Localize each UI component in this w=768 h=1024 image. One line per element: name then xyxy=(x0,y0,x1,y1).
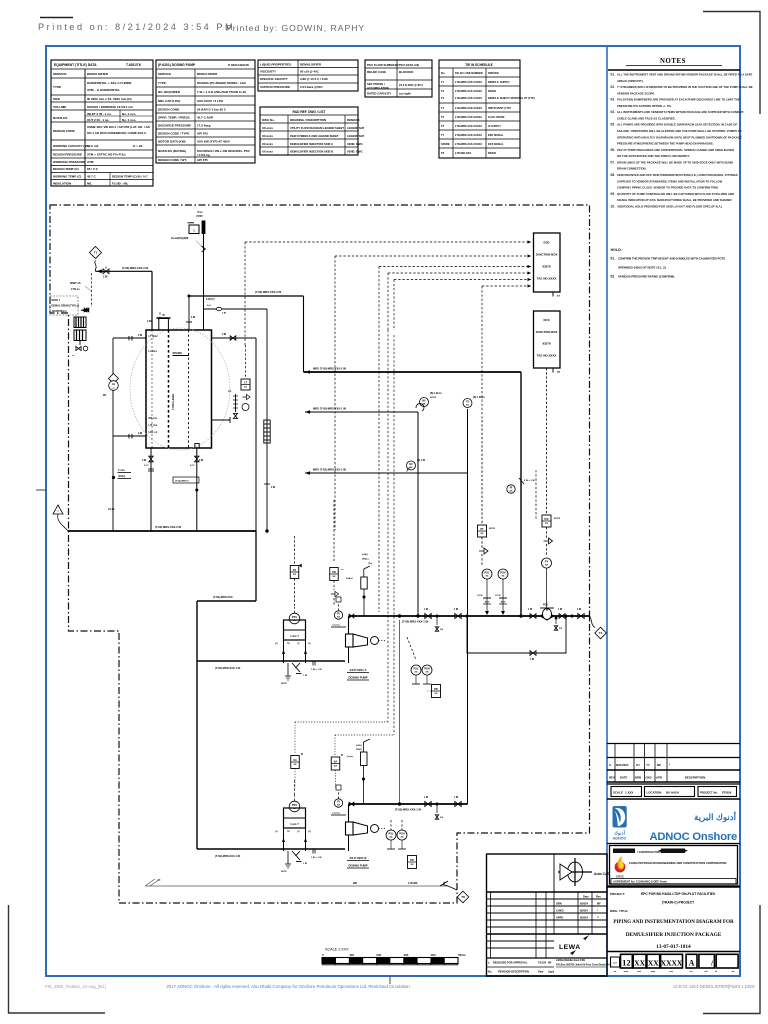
svg-text:(T-62)-MRS-XXX-1 IN: (T-62)-MRS-XXX-1 IN xyxy=(402,620,428,624)
svg-text:T8: T8 xyxy=(461,895,465,899)
svg-text:AREAS (OPEN PIT).: AREAS (OPEN PIT). xyxy=(617,79,644,83)
svg-text:DEMULSIFIER INJECTION SKID B: DEMULSIFIER INJECTION SKID B xyxy=(290,150,333,154)
svg-text:P-6201A/B/C/D: P-6201A/B/C/D xyxy=(228,63,250,67)
pump A PSV xyxy=(289,613,300,624)
svg-text:VEND. DWG: VEND. DWG xyxy=(347,142,363,146)
svg-text:2 IN: 2 IN xyxy=(103,276,108,279)
XA square 2 xyxy=(331,757,340,770)
filter on standpipe xyxy=(266,309,268,531)
svg-text:8/2024: 8/2024 xyxy=(580,916,588,920)
svg-text:No. 2 nos.: No. 2 nos. xyxy=(122,112,137,116)
arrow fitting A xyxy=(479,548,488,554)
svg-text:ATM + STATIC HD FV+FULL: ATM + STATIC HD FV+FULL xyxy=(87,153,126,157)
svg-text:WORKING PRESSURE: WORKING PRESSURE xyxy=(53,160,85,164)
svg-text:8/2024: 8/2024 xyxy=(580,902,588,906)
svg-text:M: M xyxy=(301,754,303,756)
svg-text:1 IN: 1 IN xyxy=(530,659,535,661)
svg-text:13-07-017-1814: 13-07-017-1814 xyxy=(656,944,691,950)
svg-text:VOLUME: VOLUME xyxy=(53,105,66,109)
control valve PCV xyxy=(540,612,554,620)
svg-text:2 IN-MRS-XXX-XXXXX: 2 IN-MRS-XXX-XXXXX xyxy=(455,133,482,137)
svg-text:LEWA: LEWA xyxy=(559,944,581,951)
svg-text:93278: 93278 xyxy=(542,342,550,346)
PCV actuator xyxy=(540,607,554,609)
svg-text:(1): (1) xyxy=(297,831,300,833)
svg-text:24.0 B ARG @ 85 C: 24.0 B ARG @ 85 C xyxy=(399,83,423,87)
svg-text:ALL INSTRUMENTS AND VENDOR'S I: ALL INSTRUMENTS AND VENDOR'S ITEMS WITHI… xyxy=(617,110,744,114)
svg-text:MOTOR DATA (KW): MOTOR DATA (KW) xyxy=(158,140,186,144)
svg-text:DESIGN CODE: DESIGN CODE xyxy=(53,129,75,133)
svg-text:type: type xyxy=(651,970,656,973)
svg-text:MF: MF xyxy=(597,902,601,906)
svg-text:1 am ?: 1 am ? xyxy=(290,634,299,638)
junction box ESD xyxy=(534,233,561,292)
svg-text:(T-62)-MRS-XXX-2 IN: (T-62)-MRS-XXX-2 IN xyxy=(122,266,148,270)
svg-text:02.: 02. xyxy=(611,85,616,89)
svg-text:NOTE: NOTE xyxy=(554,518,561,520)
svg-text:M xx: M xx xyxy=(198,212,204,214)
svg-text:XXX KW (TYP) AT 400V: XXX KW (TYP) AT 400V xyxy=(197,140,230,144)
svg-text:xxxx: xxxx xyxy=(613,963,618,965)
svg-text:(T-62)-MRS-XXX-2 IN: (T-62)-MRS-XXX-2 IN xyxy=(155,525,181,529)
svg-text:VISCOSITY: VISCOSITY xyxy=(260,70,276,74)
svg-text:TYPE: TYPE xyxy=(158,81,166,85)
svg-text:2 IN: 2 IN xyxy=(147,320,152,323)
pump B relief loop xyxy=(284,808,306,828)
svg-text:PA: PA xyxy=(293,568,297,572)
svg-text:أدنوك البرية: أدنوك البرية xyxy=(694,810,736,823)
svg-text:DWG No.: DWG No. xyxy=(262,118,275,122)
tank left nozzle LG lower xyxy=(113,435,146,437)
svg-text:TIE-IN / LINE NUMBER: TIE-IN / LINE NUMBER xyxy=(455,71,483,75)
CPECC logo xyxy=(615,862,626,873)
svg-text:CONFIRM THE PROVEN TRIP HEIGHT: CONFIRM THE PROVEN TRIP HEIGHT AND HANDL… xyxy=(618,257,725,261)
svg-text:ASME SEC VIII DIV.1 / API 650: ASME SEC VIII DIV.1 / API 650 (LAT. ED. … xyxy=(87,125,151,129)
svg-text:Date: Date xyxy=(583,895,589,899)
crop mark bottom-right xyxy=(703,905,760,1014)
svg-text:xx: xx xyxy=(72,355,75,357)
svg-text:PULSATION DAMPENERS ARE PROVID: PULSATION DAMPENERS ARE PROVIDED AT EACH… xyxy=(617,98,740,102)
svg-text:0: 0 xyxy=(322,953,324,957)
level gauge standpipe xyxy=(112,338,114,531)
flow glass tap xyxy=(112,476,115,479)
svg-text:HOLD:: HOLD: xyxy=(611,248,622,252)
svg-text:TAG NO:XXXX: TAG NO:XXXX xyxy=(537,353,557,357)
LT flag A xyxy=(361,577,367,589)
svg-text:2 IN xx: 2 IN xx xyxy=(71,287,80,291)
svg-text:1: 1 xyxy=(193,229,195,233)
svg-text:xx: xx xyxy=(390,836,393,839)
svg-text:JUNCTION BOX: JUNCTION BOX xyxy=(536,330,558,334)
svg-text:MRS (T-62)-MRS-XXX-2 IN: MRS (T-62)-MRS-XXX-2 IN xyxy=(313,367,346,371)
suction header B xyxy=(197,848,345,850)
notes panel border xyxy=(606,46,608,976)
tank T-6201 shell xyxy=(146,330,212,448)
svg-text:XXXX: XXXX xyxy=(661,959,683,968)
svg-text:xx: xx xyxy=(294,763,297,766)
svg-text:ALL THE INSTRUMENT VENT AND DR: ALL THE INSTRUMENT VENT AND DRAINS WITHI… xyxy=(617,73,753,77)
svg-text:CHKD: CHKD xyxy=(556,909,564,913)
svg-text:2 IN WD: 2 IN WD xyxy=(408,882,418,885)
crop mark top-left xyxy=(40,17,73,19)
svg-text:ATM. - E HORIZONTAL: ATM. - E HORIZONTAL xyxy=(87,88,120,92)
svg-text:(T-62)-MRS-XXX: (T-62)-MRS-XXX xyxy=(213,595,233,599)
svg-text:Y' STRAINERS WITH 40 MICRONS T: Y' STRAINERS WITH 40 MICRONS TO BE PROVI… xyxy=(617,85,753,89)
svg-text:1 IN: 1 IN xyxy=(424,797,429,799)
ESD signal lines xyxy=(245,241,531,243)
svg-text:1/2 IN: 1/2 IN xyxy=(477,595,483,597)
svg-text:2 IN: 2 IN xyxy=(191,317,196,319)
svg-text:xx: xx xyxy=(411,863,414,866)
svg-text:SxBxC: SxBxC xyxy=(346,578,353,580)
svg-text:(B) 1 IN xx: (B) 1 IN xx xyxy=(473,396,485,399)
svg-text:2 IN: 2 IN xyxy=(271,487,276,489)
svg-text:45.7 C: 45.7 C xyxy=(87,175,97,179)
pump B suction spec break xyxy=(312,849,314,854)
level gauge column xyxy=(235,394,237,412)
svg-text:xx: xx xyxy=(466,404,469,407)
svg-text:H = HL: H = HL xyxy=(133,144,143,148)
vendor rev table xyxy=(487,891,608,893)
svg-text:Zone2(S)x(3)M: Zone2(S)x(3)M xyxy=(171,237,188,240)
svg-text:WBT IA: WBT IA xyxy=(70,281,81,285)
check on riser xyxy=(519,478,524,484)
svg-text:SIZE: SIZE xyxy=(53,97,60,101)
svg-text:of: of xyxy=(715,971,717,973)
svg-text:14.0 m3: 14.0 m3 xyxy=(87,144,99,148)
svg-text:500m: 500m xyxy=(458,953,466,957)
svg-text:WORKING TEMP. (C): WORKING TEMP. (C) xyxy=(53,175,81,179)
svg-text:DEMULS. SUPPLY: DEMULS. SUPPLY xyxy=(488,81,510,84)
future line 2 xyxy=(305,410,310,414)
svg-text:xx: xx xyxy=(502,575,505,578)
svg-text:XX-xxxx: XX-xxxx xyxy=(262,126,273,130)
svg-text:DCS: DCS xyxy=(543,318,549,322)
pump A leak detect signals xyxy=(387,330,389,722)
svg-text:xxx/mg: xxx/mg xyxy=(332,813,340,815)
svg-text:No. 1 nos.: No. 1 nos. xyxy=(122,118,137,122)
svg-text:1:XXX: 1:XXX xyxy=(625,791,633,795)
svg-text:M: M xyxy=(162,314,164,317)
svg-text:OPENINGS (HOLD AT NOTE 10.1, 2: OPENINGS (HOLD AT NOTE 10.1, 2). xyxy=(618,266,667,270)
svg-text:NOTE: NOTE xyxy=(430,397,437,399)
pump A suction spec break xyxy=(312,661,314,666)
svg-text:PSV-XXXX A/B: PSV-XXXX A/B xyxy=(399,63,419,67)
LT signal from tank xyxy=(159,312,161,319)
svg-text:MIN. CAP (LPH): MIN. CAP (LPH) xyxy=(158,99,180,103)
svg-text:01.: 01. xyxy=(611,73,616,77)
svg-text:DESIGN COND.: DESIGN COND. xyxy=(158,108,180,112)
svg-text:Auto CAD: Auto CAD xyxy=(594,872,611,876)
svg-text:JUNCTION BOX: JUNCTION BOX xyxy=(536,253,558,257)
svg-text:(T-62)-MRS-X: (T-62)-MRS-X xyxy=(175,481,189,483)
svg-text:1 IN: 1 IN xyxy=(303,675,307,677)
PI on riser xyxy=(463,399,472,408)
svg-text:xx: xx xyxy=(341,569,344,571)
pump B PSL pair xyxy=(386,830,396,840)
svg-text:TAG NO:XXXX: TAG NO:XXXX xyxy=(537,277,557,281)
svg-text:2 IN-WD-XXX: 2 IN-WD-XXX xyxy=(455,151,471,155)
svg-text:Printed on: 8/21/2024 3:54 PM: Printed on: 8/21/2024 3:54 PM xyxy=(38,22,235,32)
svg-text:NO. REQUIRED: NO. REQUIRED xyxy=(158,90,181,94)
svg-text:VARIOUS PRESSURE RATING (CONFI: VARIOUS PRESSURE RATING (CONFIRM). xyxy=(618,275,675,279)
svg-text:xx: xx xyxy=(545,564,548,567)
svg-text:07.: 07. xyxy=(611,160,616,164)
svg-text:FAILURE, OPERATORS WILL BE ALE: FAILURE, OPERATORS WILL BE ALERTED AND T… xyxy=(617,129,742,133)
psv B signal xyxy=(294,780,296,795)
svg-text:DEMULSIFIER: DEMULSIFIER xyxy=(197,72,218,76)
svg-text:(xx)xx: (xx)xx xyxy=(347,756,354,758)
svg-text:MT xxx: MT xxx xyxy=(149,417,158,420)
drain collection line xyxy=(145,885,448,887)
svg-text:INSTR./VENT (TYP): INSTR./VENT (TYP) xyxy=(488,107,511,110)
table equipment data T-6201 xyxy=(51,60,153,186)
header A outlet valve xyxy=(578,613,584,618)
svg-text:PIC: PIC xyxy=(544,517,548,521)
svg-text:(TRAIN-C) PROJECT: (TRAIN-C) PROJECT xyxy=(662,901,694,905)
pressure bubbles A xyxy=(482,569,492,579)
svg-text:RATED CAPACITY: RATED CAPACITY xyxy=(367,92,391,96)
svg-text:2 IN: 2 IN xyxy=(199,460,204,462)
svg-text:FLUID : NIL: FLUID : NIL xyxy=(112,182,128,186)
svg-text:PROJECT:: PROJECT: xyxy=(610,892,625,896)
svg-text:LG: LG xyxy=(112,383,115,386)
svg-text:2 IN: 2 IN xyxy=(138,335,143,337)
pipe inlet from T1 xyxy=(90,247,102,259)
svg-text:(1): (1) xyxy=(275,831,278,833)
svg-text:DRAIN: DRAIN xyxy=(488,152,496,155)
svg-text:SERVICE: SERVICE xyxy=(53,72,67,76)
svg-text:CKD: CKD xyxy=(646,776,652,780)
svg-text:XA: XA xyxy=(293,758,297,762)
svg-text:T3: T3 xyxy=(441,96,445,100)
svg-text:LILL xx: LILL xx xyxy=(149,431,158,434)
svg-text:T8: T8 xyxy=(557,371,560,374)
svg-text:24 BAR G 3 bar 85 C: 24 BAR G 3 bar 85 C xyxy=(197,108,227,112)
fold mark bottom xyxy=(389,976,391,984)
svg-text:GY: GY xyxy=(636,763,640,767)
svg-text:DWG. TITLE:: DWG. TITLE: xyxy=(610,909,628,913)
svg-text:PID_4900_TextBox_43-Aug_[9/1]: PID_4900_TextBox_43-Aug_[9/1] xyxy=(45,984,106,989)
svg-text:HORIZONTAL + SKL CYLINDR.: HORIZONTAL + SKL CYLINDR. xyxy=(87,81,132,85)
svg-text:DRAIN LINES OF THE PACKAGE WIL: DRAIN LINES OF THE PACKAGE WILL BE MADE … xyxy=(617,160,733,164)
svg-text:xxx/mg: xxx/mg xyxy=(332,625,340,627)
drain connector T8 xyxy=(457,891,469,903)
svg-text:8/21/2024: 8/21/2024 xyxy=(616,763,629,767)
table tie-in schedule xyxy=(439,60,520,158)
svg-text:SERVICE: SERVICE xyxy=(158,72,171,76)
svg-text:area: area xyxy=(624,971,629,973)
pump A relief loop xyxy=(284,620,306,640)
svg-text:co: co xyxy=(614,971,617,973)
svg-text:1 IN: 1 IN xyxy=(424,609,429,611)
svg-text:API 675: API 675 xyxy=(197,158,208,162)
svg-text:01.: 01. xyxy=(611,257,616,261)
svg-text:INLET 2 IN - 1 no.: INLET 2 IN - 1 no. xyxy=(87,112,112,116)
tank outlet right xyxy=(196,448,198,531)
svg-text:OPER. TEMP. / PRESS.: OPER. TEMP. / PRESS. xyxy=(158,116,191,120)
svg-text:MF: MF xyxy=(548,962,552,965)
pipe riser to header B xyxy=(399,620,401,804)
tank left nozzle LG upper xyxy=(113,337,146,339)
svg-text:DRN: DRN xyxy=(635,776,641,780)
svg-text:2 IN-MRS-XXX-XXXXX: 2 IN-MRS-XXX-XXXXX xyxy=(455,80,482,84)
pump B discharge riser xyxy=(348,804,350,822)
IA dashed drop xyxy=(91,273,93,307)
svg-text:SIGNAL INDICATION AT DCS. MANU: SIGNAL INDICATION AT DCS. MANUFACTURING … xyxy=(617,198,732,202)
table dosing pump data xyxy=(156,60,255,163)
svg-text:100: 100 xyxy=(349,953,354,957)
drawing number boxes xyxy=(607,951,740,953)
svg-text:**: ** xyxy=(597,916,599,920)
svg-text:2 IN x 1 IN: 2 IN x 1 IN xyxy=(524,480,535,482)
svg-text:(LSH): (LSH) xyxy=(362,554,368,556)
svg-text:BU HASA: BU HASA xyxy=(666,791,680,795)
svg-text:S.I.T: S.I.T xyxy=(190,465,195,467)
svg-text:12: 12 xyxy=(622,958,631,968)
pump A discharge riser xyxy=(348,616,350,634)
svg-text:300: 300 xyxy=(404,953,409,957)
ADNOC logo xyxy=(613,806,627,828)
svg-text:DRAIN CONNECTION.: DRAIN CONNECTION. xyxy=(617,167,647,171)
svg-text:T5: T5 xyxy=(441,115,445,119)
tank internals xyxy=(151,330,153,448)
svg-text:NOTES: NOTES xyxy=(660,58,686,65)
svg-text:XX-xxxx: XX-xxxx xyxy=(262,134,273,138)
drain B xyxy=(436,804,438,813)
svg-text:AGREEMENT No. 12345/ABC-S-DEF: AGREEMENT No. 12345/ABC-S-DEF-Onsh xyxy=(613,880,667,884)
svg-text:API 675: API 675 xyxy=(197,132,208,136)
solenoid flag xyxy=(361,752,368,766)
svg-text:2 IN-MRS-XXX-XXXXX: 2 IN-MRS-XXX-XXXXX xyxy=(455,89,482,93)
svg-text:XX-P-6201 A: XX-P-6201 A xyxy=(350,668,368,672)
svg-text:xxx kg/hr: xxx kg/hr xyxy=(399,92,412,96)
svg-text:IA SUPPLY: IA SUPPLY xyxy=(488,125,501,128)
svg-text:PD: PD xyxy=(434,687,438,691)
svg-text:(T-62)-MRS-XXX-1 IN: (T-62)-MRS-XXX-1 IN xyxy=(215,666,240,670)
svg-text:T-6201 LEVEL: T-6201 LEVEL xyxy=(172,393,175,410)
svg-text:ADNOC: ADNOC xyxy=(613,837,627,841)
vendor title block xyxy=(487,854,608,976)
svg-text:LIQUID PROPERTIES: LIQUID PROPERTIES xyxy=(260,63,291,67)
svg-text:Date: Date xyxy=(538,971,544,974)
svg-text:CHINA PETROLEUM ENGINEERING AN: CHINA PETROLEUM ENGINEERING AND CONSTRUC… xyxy=(629,861,726,865)
svg-text:T6: T6 xyxy=(441,124,445,128)
svg-text:xx: xx xyxy=(334,765,337,768)
svg-text:2 IN: 2 IN xyxy=(222,334,227,336)
svg-text:3/4: 3/4 xyxy=(440,628,444,631)
pump B motor xyxy=(371,825,379,833)
svg-text:xx: xx xyxy=(244,386,247,389)
svg-text:DCS SIGNAL: DCS SIGNAL xyxy=(488,143,504,146)
svg-text:1 IN: 1 IN xyxy=(577,609,582,611)
discharge header B xyxy=(349,803,468,805)
svg-text:PRESSURE ATMOSPHERIC BETWEEN T: PRESSURE ATMOSPHERIC BETWEEN THE PUMP HE… xyxy=(617,142,714,146)
svg-text:3/4: 3/4 xyxy=(559,627,563,630)
bypass loop xyxy=(467,616,566,653)
svg-text:Rev: Rev xyxy=(596,895,601,899)
svg-text:A: A xyxy=(689,959,695,968)
svg-text:1 IN x 1 IN: 1 IN x 1 IN xyxy=(311,669,322,671)
svg-text:SPARE: SPARE xyxy=(441,142,450,146)
svg-text:ALL PUMPS ARE PROVIDED WITH DO: ALL PUMPS ARE PROVIDED WITH DOUBLE DIAPH… xyxy=(617,123,737,127)
svg-text:MF: MF xyxy=(657,763,661,767)
svg-text:NOTE 1: NOTE 1 xyxy=(52,299,61,302)
svg-text:DRAIN: DRAIN xyxy=(488,90,496,93)
svg-text:WORKING CAPACITY (M3): WORKING CAPACITY (M3) xyxy=(53,144,89,148)
svg-text:XX: XX xyxy=(634,959,645,968)
svg-text:tot: tot xyxy=(732,970,735,973)
svg-text:3/4: 3/4 xyxy=(440,816,444,819)
svg-text:TR: TR xyxy=(287,643,290,645)
svg-text:HC: HC xyxy=(157,879,161,882)
svg-text:WD(L): WD(L) xyxy=(356,749,362,751)
table liquid properties xyxy=(258,60,358,91)
unloading valve xyxy=(79,341,81,346)
svg-text:1 IN x 1 IN: 1 IN x 1 IN xyxy=(311,857,322,859)
svg-text:DOSING PUMP: DOSING PUMP xyxy=(348,864,367,868)
pump A PI gauge xyxy=(334,611,342,619)
svg-text:APD: APD xyxy=(656,776,662,780)
tank recycle header xyxy=(189,295,304,297)
svg-text:BLOCKED: BLOCKED xyxy=(399,70,413,74)
svg-text:(B) 1 IN xx: (B) 1 IN xx xyxy=(430,392,442,395)
svg-text:DATE: DATE xyxy=(620,776,628,780)
svg-text:NOTE: NOTE xyxy=(489,528,496,530)
svg-text:PIPING AND INSTRUMENTATION DIA: PIPING AND INSTRUMENTATION DIAGRAM FOR xyxy=(613,919,734,925)
svg-text:PRESSURE PULSATIONS WITHIN +/-: PRESSURE PULSATIONS WITHIN +/- 5%. xyxy=(617,104,672,108)
svg-text:SPARE: SPARE xyxy=(173,351,183,355)
svg-text:6 IN (T): 6 IN (T) xyxy=(206,298,215,301)
svg-text:(P-6201) DOSING PUMP: (P-6201) DOSING PUMP xyxy=(158,63,196,67)
svg-text:2017 ADNOC Onshore - All right: 2017 ADNOC Onshore - All rights reserved… xyxy=(166,984,410,989)
svg-text:REV: REV xyxy=(609,776,615,780)
pump A drain xyxy=(287,663,289,676)
tank balance riser xyxy=(255,338,257,531)
discharge header A valves xyxy=(425,613,431,618)
svg-text:GR 1 AD 2000 ADDENDUM) / ASME: GR 1 AD 2000 ADDENDUM) / ASME B31.3 xyxy=(87,131,146,135)
svg-text:PSV FLOW SUMMARY: PSV FLOW SUMMARY xyxy=(367,63,399,67)
svg-text:/: / xyxy=(710,959,714,968)
crop mark bottom-left xyxy=(9,905,106,1013)
svg-text:x: x xyxy=(488,962,490,965)
svg-text:SERVICE: SERVICE xyxy=(488,72,499,75)
svg-text:2 IN-MRS-XXX-XXXXX: 2 IN-MRS-XXX-XXXXX xyxy=(455,96,482,100)
svg-text:S.I.T: S.I.T xyxy=(144,465,149,467)
svg-text:DESIGN TEMP (C): DESIGN TEMP (C) xyxy=(53,167,79,171)
svg-text:SCALE 1:XXX: SCALE 1:XXX xyxy=(325,948,349,952)
svg-text:DEMULSIFIER INJECTION PACKAGE: DEMULSIFIER INJECTION PACKAGE xyxy=(626,932,722,938)
svg-text:xx: xx xyxy=(333,575,336,578)
autocad logo xyxy=(558,858,592,886)
svg-text:OPERATING WITH HEALTHY DIAPHRA: OPERATING WITH HEALTHY DIAPHRAGM UNTIL N… xyxy=(617,135,742,139)
svg-text:DESIGN CODE / WT.: DESIGN CODE / WT. xyxy=(158,158,187,162)
main outlet header xyxy=(68,530,256,532)
svg-text:T7: T7 xyxy=(557,295,560,298)
svg-text:T8: T8 xyxy=(441,151,445,155)
svg-text:93278: 93278 xyxy=(542,265,550,269)
svg-text:LIT xxx: LIT xxx xyxy=(149,424,158,427)
svg-text:UTILITY FLOW DIAGRAM LEGEND SH: UTILITY FLOW DIAGRAM LEGEND SHEET xyxy=(290,126,344,130)
svg-text:YY: YY xyxy=(646,763,650,767)
pump B strainer xyxy=(292,851,300,860)
svg-text:2 IN-MRS-XXX-XXXXX: 2 IN-MRS-XXX-XXXXX xyxy=(455,124,482,128)
svg-text:T1: T1 xyxy=(94,251,98,255)
LT dashed xyxy=(245,345,247,378)
junction box DCS xyxy=(534,311,561,368)
svg-text:PT: PT xyxy=(480,527,484,531)
level instrument LG xyxy=(109,374,119,384)
